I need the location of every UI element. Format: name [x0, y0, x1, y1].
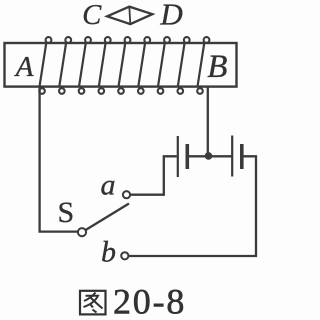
svg-text:B: B: [207, 49, 227, 85]
svg-text:A: A: [14, 51, 34, 83]
svg-text:b: b: [101, 235, 116, 268]
svg-text:C: C: [82, 0, 102, 31]
svg-text:D: D: [159, 0, 182, 31]
svg-text:S: S: [58, 196, 75, 229]
svg-text:20-8: 20-8: [113, 282, 186, 320]
svg-text:a: a: [101, 168, 116, 201]
